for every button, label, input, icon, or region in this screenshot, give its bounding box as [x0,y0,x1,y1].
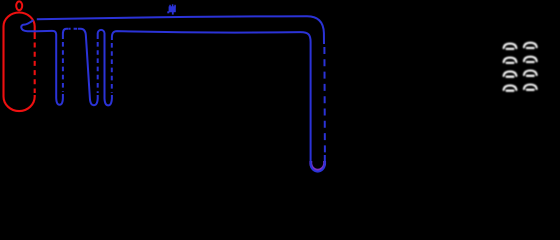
blue hairpin 2 U bottom, slanted left stroke, corner into wide connector (solid) [78,29,98,105]
glyph r4c1 [504,85,517,90]
label 0 (red) [16,1,22,10]
glyph r2c1 [504,58,517,63]
blue hairpin 1 right stroke (dashed) [62,42,64,92]
blue long finger right stroke (dashed) [323,47,326,153]
glyph r3c1 [504,71,517,76]
purple fringe under long U [311,161,325,170]
glyph r1c2 [524,43,537,48]
blue hairpin 3 right stroke (dashed) [111,43,113,93]
glyph r1c1 [504,44,517,49]
blue wide connector dashed middle [69,28,77,30]
blue top strand: from hook to outer corner, then down (solid part of corner) [37,16,324,44]
red loop dashed right side [34,43,36,94]
glyph r3c2 [524,71,537,76]
blue hairpin 3 U bottom, left stroke, arch top (solid) [98,30,112,106]
blue hairpin 2 right stroke (dashed) [97,42,99,93]
blue long finger U bottom and left stroke (solid) up to inner corner, then second strand [112,31,325,171]
blue wide connector left corner down into hairpin 1 right stroke (solid) [63,29,69,39]
blue hook around red loop (lower strand continues left, curls up, ends before red line) [21,20,37,31]
blue hairpin 1 U bottom, left stroke, corner into hook lower strand (solid) [37,31,63,105]
white glyph grid 4 rows x 2 cols [504,43,537,91]
blue curve label (small glyph) [167,4,176,14]
glyph r2c2 [524,57,537,62]
glyph r4c2 [524,85,537,90]
red loop solid part (left side, top arch, bottom arc, upper right side) [4,13,35,112]
